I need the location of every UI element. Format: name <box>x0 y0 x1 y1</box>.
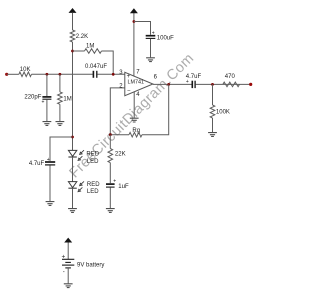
wire <box>67 243 69 260</box>
svg-text:LED: LED <box>87 189 99 195</box>
wire <box>50 137 73 161</box>
ground <box>68 209 77 213</box>
svg-text:−: − <box>127 88 131 94</box>
svg-text:100uF: 100uF <box>157 35 174 41</box>
svg-text:2.2K: 2.2K <box>76 34 88 40</box>
svg-text:2: 2 <box>119 84 123 90</box>
svg-text:+: + <box>127 74 131 80</box>
wire <box>72 42 74 150</box>
capacitor 220pF <box>42 96 51 98</box>
node bias junction <box>71 50 74 53</box>
wire <box>109 135 111 149</box>
svg-text:10K: 10K <box>20 67 31 73</box>
ground <box>43 122 52 126</box>
wire <box>59 104 61 121</box>
node input terminal <box>5 73 8 76</box>
node V+ junction <box>133 20 136 23</box>
wire <box>7 73 19 75</box>
svg-text:+: + <box>47 157 50 163</box>
resistor 100K <box>210 105 215 118</box>
ground <box>64 284 73 288</box>
wire <box>212 118 214 132</box>
svg-text:100K: 100K <box>216 110 230 116</box>
wire <box>67 268 69 284</box>
svg-text:-: - <box>63 270 65 276</box>
LED D1 RED <box>68 150 76 156</box>
node 220pF junction <box>46 73 49 76</box>
wire <box>98 73 125 75</box>
svg-text:9V battery: 9V battery <box>77 262 104 268</box>
ground <box>46 202 55 206</box>
svg-text:+: + <box>113 179 116 185</box>
capacitor 4.7uF (bias) <box>45 161 55 163</box>
svg-text:+: + <box>62 253 66 260</box>
ground <box>106 209 115 213</box>
wire <box>110 134 129 136</box>
capacitor 100uF <box>146 35 156 37</box>
pin 2 wire <box>110 88 125 135</box>
resistor 1M (top) <box>73 50 85 52</box>
op-amp U1 LM741 <box>125 72 153 95</box>
wire <box>212 84 214 105</box>
node LED junction <box>71 136 74 139</box>
power V+ arrow (op-amp) <box>130 8 138 13</box>
svg-text:LED: LED <box>87 159 99 165</box>
svg-text:3: 3 <box>119 70 123 76</box>
wire <box>72 188 74 208</box>
svg-text:470: 470 <box>225 74 236 80</box>
wire <box>109 163 111 184</box>
wire <box>46 100 48 122</box>
svg-text:1M: 1M <box>63 97 71 103</box>
wire <box>59 74 61 92</box>
capacitor 1uF <box>106 183 115 185</box>
capacitor 4.7uF (output) <box>191 81 193 88</box>
wire <box>72 157 74 182</box>
wire <box>134 22 151 35</box>
node output junction <box>211 83 214 86</box>
power V+ arrow (left) <box>69 8 77 13</box>
svg-text:4.7uF: 4.7uF <box>29 161 45 167</box>
svg-text:+: + <box>42 99 45 105</box>
capacitor 0.047uF <box>92 71 94 78</box>
node feedback junction <box>167 83 170 86</box>
resistor Rg <box>129 132 142 137</box>
ground <box>56 122 65 126</box>
resistor 2.2K <box>70 30 75 42</box>
svg-text:22K: 22K <box>115 152 126 158</box>
resistor 470 <box>223 82 240 87</box>
wire <box>49 165 51 201</box>
pin 7 wire <box>133 13 135 76</box>
wire <box>150 39 152 58</box>
wire <box>46 74 48 96</box>
node pin2 junction <box>109 133 112 136</box>
resistor 1M (vertical) <box>58 92 63 104</box>
wire <box>72 13 74 30</box>
svg-text:+: + <box>152 31 155 37</box>
svg-text:Rg: Rg <box>132 128 140 134</box>
wire <box>142 84 169 134</box>
svg-text:1uF: 1uF <box>118 184 129 190</box>
resistor 10K <box>19 72 32 77</box>
battery BT1 9V <box>62 258 74 260</box>
svg-text:220pF: 220pF <box>24 95 41 101</box>
pin 6 wire <box>153 83 251 85</box>
node 1M junction <box>59 73 62 76</box>
svg-text:RED: RED <box>87 182 100 188</box>
resistor 22K <box>108 149 113 163</box>
wire <box>32 73 93 75</box>
wire <box>109 188 111 209</box>
svg-text:1M: 1M <box>86 44 94 50</box>
power V+ arrow (battery) <box>64 238 72 243</box>
svg-text:7: 7 <box>136 70 140 76</box>
ground <box>130 118 139 122</box>
svg-text:RED: RED <box>86 151 99 157</box>
node pin3 junction <box>112 73 115 76</box>
svg-text:+: + <box>186 79 189 85</box>
LED D2 RED <box>68 182 76 188</box>
ground <box>146 58 155 62</box>
node output terminal <box>249 83 252 86</box>
ground <box>208 133 217 137</box>
pin 4 wire <box>133 92 135 118</box>
svg-text:0.047uF: 0.047uF <box>85 64 107 70</box>
